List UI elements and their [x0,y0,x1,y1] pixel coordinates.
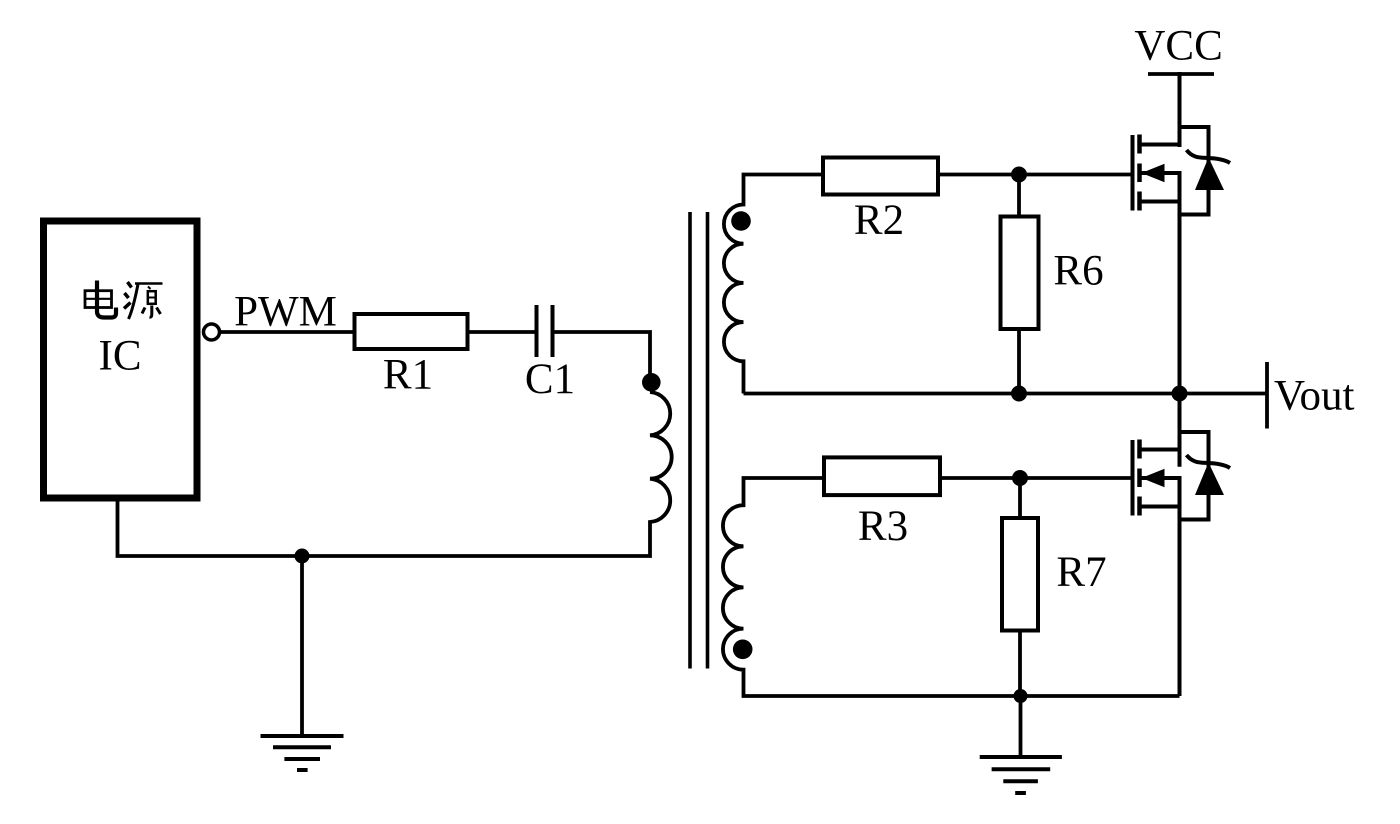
svg-text:C1: C1 [525,356,575,403]
svg-text:Vout: Vout [1274,373,1355,420]
svg-text:R7: R7 [1056,549,1106,596]
svg-text:R2: R2 [854,197,904,244]
svg-text:R1: R1 [383,352,433,399]
svg-text:R3: R3 [858,503,908,550]
svg-text:PWM: PWM [234,289,337,336]
svg-text:IC: IC [99,333,142,380]
svg-text:VCC: VCC [1134,23,1222,70]
svg-text:R6: R6 [1053,248,1103,295]
